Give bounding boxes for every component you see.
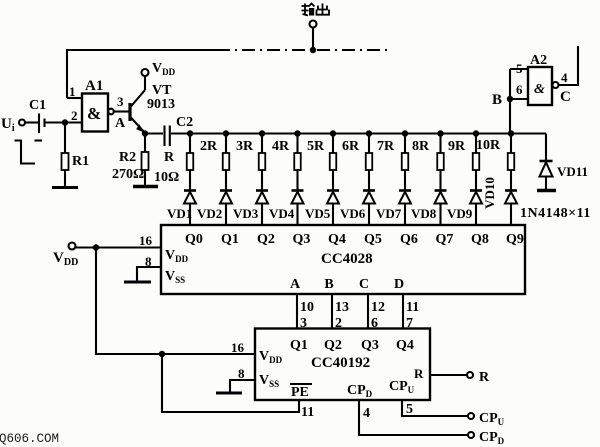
svg-text:4: 4 (363, 406, 370, 421)
wire emitter node to C2 (145, 132, 163, 134)
svg-text:Q4: Q4 (396, 338, 414, 353)
wire dash-dot continuation of top rail (217, 49, 390, 51)
label shuchu (output) hand-drawn glyphs (302, 4, 330, 16)
node rail junction column 10 (508, 130, 514, 136)
wire C2 to ladder rail (171, 132, 190, 134)
svg-text:4: 4 (561, 70, 568, 85)
node B junction (507, 96, 513, 102)
svg-text:VD2: VD2 (197, 206, 222, 221)
svg-text:R2: R2 (119, 150, 136, 165)
svg-text:270Ω: 270Ω (112, 167, 144, 182)
svg-text:Q5: Q5 (364, 232, 382, 247)
resistor 7R (402, 134, 409, 191)
svg-text:11: 11 (301, 405, 314, 420)
diode VD4 (292, 191, 304, 226)
node rail junction column 8 (437, 130, 443, 136)
svg-text:D: D (394, 277, 404, 292)
svg-text:Q1: Q1 (221, 232, 239, 247)
svg-text:C: C (560, 89, 571, 105)
svg-text:8: 8 (238, 366, 245, 381)
node junction above CC40192 (159, 351, 165, 357)
resistor R (187, 134, 194, 191)
svg-text:VD11: VD11 (557, 164, 588, 179)
node rail junction column 3 (259, 130, 265, 136)
diode VD9 (470, 191, 482, 226)
svg-text:16: 16 (231, 340, 245, 355)
svg-text:Q3: Q3 (361, 338, 379, 353)
svg-text:Q606.COM: Q606.COM (0, 432, 59, 446)
terminal R circle (467, 372, 473, 378)
svg-text:3R: 3R (236, 139, 254, 154)
resistor 3R (259, 134, 266, 191)
diode VD8 (435, 191, 447, 226)
resistor 5R (330, 134, 337, 191)
resistor 9R (473, 134, 480, 191)
svg-text:Q6: Q6 (400, 232, 418, 247)
resistor 6R (366, 134, 373, 191)
svg-text:10: 10 (300, 300, 314, 315)
svg-text:3: 3 (117, 94, 124, 109)
svg-text:VD10: VD10 (482, 177, 497, 209)
svg-text:VD4: VD4 (269, 206, 295, 221)
svg-text:A1: A1 (85, 78, 103, 94)
terminal VDD supply (69, 243, 76, 250)
terminal CPD circle (468, 432, 474, 438)
wire VDD into CC4028 (96, 246, 161, 248)
capacitor C2 (165, 115, 194, 146)
diode VD7 (399, 191, 411, 226)
svg-text:Q8: Q8 (471, 232, 489, 247)
svg-text:Q2: Q2 (324, 338, 342, 353)
svg-text:11: 11 (406, 300, 419, 315)
svg-text:Q2: Q2 (257, 232, 275, 247)
svg-text:10R: 10R (476, 138, 501, 153)
ground CC4028 VSS (124, 281, 151, 284)
ground CC40192 VSS (216, 392, 242, 395)
diode VD11 (540, 161, 553, 189)
node rail junction column 7 (402, 130, 408, 136)
wire CC4028 to CC40192 column (402, 294, 404, 329)
svg-text:1N4148×11: 1N4148×11 (520, 206, 591, 221)
node rail junction column 9 (473, 130, 479, 136)
svg-text:8R: 8R (412, 139, 430, 154)
svg-text:R1: R1 (72, 154, 89, 169)
svg-text:4R: 4R (272, 139, 290, 154)
resistor R2 270ohm (112, 134, 149, 187)
svg-text:Q0: Q0 (185, 232, 203, 247)
wire CC4028 to CC40192 column (296, 294, 298, 329)
ground below R1 (52, 186, 78, 189)
svg-text:PE: PE (291, 385, 309, 400)
svg-text:VD3: VD3 (233, 206, 259, 221)
wire A2 output riser (559, 46, 579, 85)
svg-text:5: 5 (516, 61, 523, 76)
wire CPU pin out (402, 400, 468, 416)
terminal VDD above VT (142, 69, 149, 76)
wire input to C1 (25, 121, 38, 123)
wire R pin out (430, 374, 467, 376)
IC U2 CC40192 box (255, 329, 430, 401)
svg-text:2R: 2R (200, 139, 218, 154)
wire A1 output to VT base (114, 110, 129, 112)
diode VD5 (327, 191, 339, 226)
wire VSS CC4028 to ground (137, 267, 161, 281)
terminal output circle (310, 21, 317, 28)
svg-text:CC4028: CC4028 (321, 251, 373, 267)
resistor 2R (223, 134, 230, 191)
svg-text:C2: C2 (176, 115, 193, 130)
capacitor C1 (29, 98, 46, 141)
op-amp gate A2 NAND (528, 53, 559, 105)
svg-text:VD7: VD7 (376, 206, 402, 221)
svg-text:C1: C1 (29, 98, 46, 113)
node emitter junction (142, 130, 148, 136)
svg-text:Q7: Q7 (436, 232, 454, 247)
node rail junction column 5 (330, 130, 336, 136)
wire B node riser (509, 69, 511, 134)
wire C1 to A1 pin2 (46, 121, 83, 123)
svg-text:5R: 5R (307, 139, 325, 154)
svg-text:&: & (87, 104, 101, 123)
node rail junction column 1 (187, 130, 193, 136)
resistor 4R (294, 134, 301, 191)
svg-text:CC40192: CC40192 (311, 355, 370, 371)
resistor 8R (437, 134, 444, 191)
svg-text:16: 16 (139, 233, 153, 248)
svg-text:B: B (324, 277, 333, 292)
wire output stub (312, 28, 314, 51)
wire CC4028 to CC40192 column (331, 294, 333, 329)
node rail junction column 6 (366, 130, 372, 136)
diode VD6 (363, 191, 375, 226)
wire CC4028 to CC40192 column (367, 294, 369, 329)
wire VDD terminal to junction (76, 246, 97, 248)
wire PE return to VDD (162, 354, 299, 412)
svg-text:Q9: Q9 (506, 232, 524, 247)
wire VDD down to CC40192 (96, 248, 255, 355)
svg-text:6R: 6R (342, 139, 360, 154)
svg-text:6: 6 (516, 82, 523, 97)
svg-text:B: B (492, 92, 502, 108)
ground below R2 (133, 185, 158, 189)
svg-text:VD5: VD5 (305, 206, 331, 221)
wire A1 pin1 from feedback rail (67, 97, 82, 99)
wire CPD pin out (359, 400, 468, 435)
svg-text:VT: VT (152, 83, 172, 98)
svg-text:R: R (414, 366, 424, 381)
svg-text:9R: 9R (448, 139, 466, 154)
resistor 10R (508, 134, 515, 191)
node input junction (62, 119, 68, 125)
terminal input circle (19, 120, 25, 126)
node VDD junction (93, 244, 99, 250)
diode VD2 (220, 191, 232, 226)
diode VD3 (256, 191, 268, 226)
diode VD1 (184, 191, 196, 226)
svg-text:VD8: VD8 (411, 206, 437, 221)
transistor VT 9013 (130, 76, 175, 133)
svg-text:12: 12 (371, 300, 385, 315)
svg-text:C: C (359, 277, 369, 292)
ground bar below VD11 (537, 189, 556, 193)
svg-text:13: 13 (335, 300, 349, 315)
wire A2 pin6 (510, 98, 528, 100)
svg-text:Q3: Q3 (293, 232, 311, 247)
svg-text:Q1: Q1 (290, 338, 308, 353)
wire top feedback rail (67, 50, 217, 98)
wire A2 pin5 (510, 68, 528, 70)
IC U1 CC4028 box (161, 225, 525, 294)
svg-text:9013: 9013 (147, 97, 175, 112)
svg-text:1: 1 (69, 84, 76, 99)
svg-text:10Ω: 10Ω (154, 170, 179, 185)
svg-text:VD6: VD6 (340, 206, 366, 221)
resistor R1 (62, 123, 90, 188)
op-amp gate A1 NAND (82, 78, 114, 132)
svg-text:A: A (290, 277, 301, 292)
wire rail to VD11 (545, 134, 547, 161)
wire ladder bus rail (188, 132, 546, 134)
svg-text:Q4: Q4 (328, 232, 346, 247)
svg-text:7R: 7R (377, 139, 395, 154)
svg-text:5: 5 (406, 402, 413, 417)
node output junction on rail (310, 47, 316, 53)
svg-text:R: R (479, 370, 490, 385)
node rail junction column 2 (223, 130, 229, 136)
node rail junction column 4 (294, 130, 300, 136)
terminal CPU circle (468, 413, 474, 419)
label PE pin with overline (290, 384, 312, 400)
svg-text:&: & (534, 82, 545, 97)
wire VSS CC40192 to ground (230, 380, 255, 392)
waveform negative pulse symbol (15, 141, 36, 164)
svg-text:VD1: VD1 (167, 206, 192, 221)
svg-text:2: 2 (71, 108, 78, 123)
diode VD10 (505, 191, 517, 226)
svg-text:R: R (164, 150, 175, 165)
svg-text:VD9: VD9 (447, 206, 473, 221)
svg-text:A: A (115, 116, 126, 131)
svg-text:A2: A2 (530, 53, 547, 68)
